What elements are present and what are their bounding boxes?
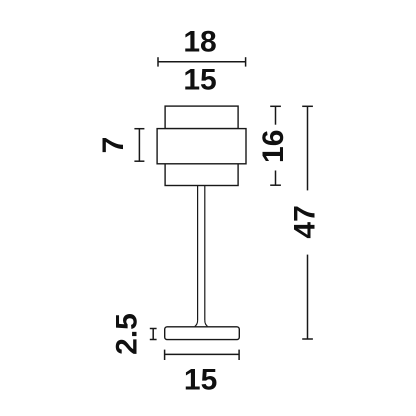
dimension line 18 xyxy=(158,57,246,66)
lamp shade bottom ring xyxy=(165,164,238,186)
svg-text:16: 16 xyxy=(257,130,290,163)
svg-text:15: 15 xyxy=(183,64,216,97)
svg-text:47: 47 xyxy=(289,205,322,238)
dimension bracket 7 xyxy=(134,129,144,162)
svg-text:18: 18 xyxy=(183,26,216,59)
svg-text:15: 15 xyxy=(184,363,217,396)
svg-text:7: 7 xyxy=(97,137,130,154)
dimension bracket 2.5 xyxy=(150,329,157,340)
pole flare xyxy=(195,321,208,327)
lamp shade top ring xyxy=(165,106,238,129)
dimension line 47 xyxy=(302,106,313,339)
dimension line 16 xyxy=(270,106,281,185)
lamp base xyxy=(165,327,240,340)
dimension line 15 (bottom) xyxy=(165,350,240,360)
lamp shade middle band xyxy=(157,129,246,164)
lamp pole xyxy=(198,186,205,322)
svg-text:2.5: 2.5 xyxy=(110,313,143,355)
